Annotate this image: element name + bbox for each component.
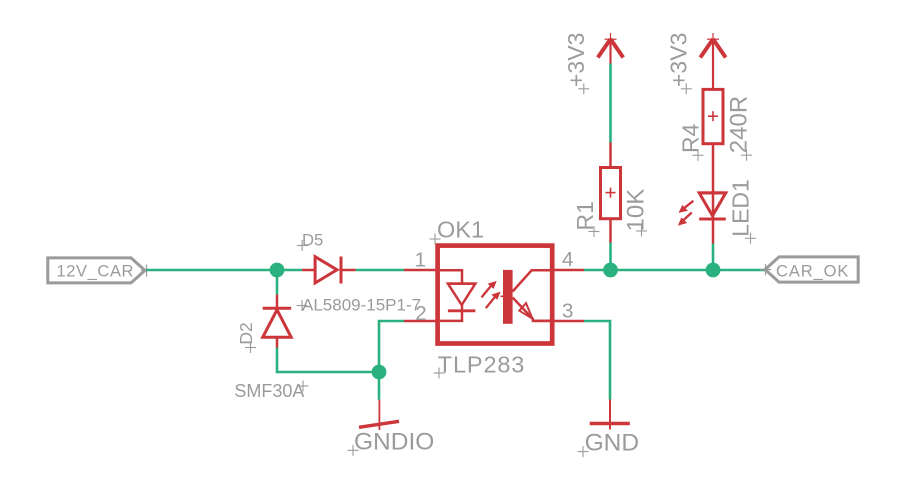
wire node B down to GNDIO [378, 372, 381, 400]
svg-text:3: 3 [562, 299, 573, 322]
ground GNDIO [359, 400, 399, 430]
wire R1 top to +3V3 [609, 64, 612, 143]
pin 2 stub [404, 320, 437, 323]
svg-text:SMF30A: SMF30A [234, 381, 304, 401]
phototransistor [503, 270, 513, 324]
interior led [440, 270, 462, 283]
pin 3 stub [552, 320, 584, 323]
supply +3V3 (left) [598, 33, 623, 64]
origin cross 10K [636, 226, 647, 237]
svg-text:1: 1 [415, 249, 426, 272]
origin cross R1 [589, 226, 600, 237]
wire OK1 pin3 to GND [584, 321, 610, 400]
wire D5 to OK1 pin1 [356, 269, 404, 272]
junction C [603, 263, 618, 278]
origin cross 240R [741, 150, 752, 161]
junction B [372, 365, 387, 380]
wire junction C up to R1 [609, 243, 612, 271]
origin cross AL5809 [297, 300, 308, 311]
wire junction A down to D2 [276, 270, 279, 294]
svg-text:TLP283: TLP283 [438, 351, 525, 377]
light arrows [482, 285, 493, 298]
svg-text:GND: GND [585, 430, 639, 457]
svg-text:2: 2 [415, 302, 426, 325]
wire node B up to OK1 pin2 [379, 321, 404, 372]
ground GND [590, 400, 630, 430]
origin cross SMF30A [298, 381, 309, 392]
svg-text:+3V3: +3V3 [666, 33, 692, 87]
origin cross +3V3 left [578, 83, 589, 94]
led arrows [683, 201, 693, 209]
origin cross +3V3 right [681, 83, 692, 94]
svg-text:R4: R4 [678, 123, 704, 153]
wire OK1 pin4 to CAR_OK [584, 269, 765, 272]
svg-text:LED1: LED1 [727, 179, 753, 237]
net flag CAR_OK [765, 257, 858, 282]
svg-text:4: 4 [562, 248, 573, 271]
origin cross GND [578, 446, 589, 457]
svg-text:GNDIO: GNDIO [354, 429, 434, 456]
opto-coupler OK1 TLP283 [438, 246, 553, 344]
svg-text:D5: D5 [302, 230, 323, 249]
wire junction D up to LED1 [712, 244, 715, 271]
pin 1 stub [404, 269, 437, 272]
resistor R1 [601, 143, 621, 243]
origin cross OK1 [430, 234, 441, 245]
diode D5 [302, 257, 356, 284]
node cross at CAR_OK tip [760, 264, 771, 276]
origin cross R4 [693, 150, 704, 161]
resistor R4 [703, 89, 723, 192]
origin cross TLP283 [434, 368, 445, 379]
LED LED1 [678, 193, 726, 244]
svg-text:CAR_OK: CAR_OK [776, 263, 849, 281]
svg-text:D2: D2 [236, 322, 256, 344]
origin cross GNDIO [348, 445, 359, 456]
node cross at 12V_CAR tip [141, 265, 152, 277]
diode D2 (TVS, cathode up) [263, 294, 292, 347]
svg-text:+3V3: +3V3 [563, 33, 589, 87]
svg-text:AL5809-15P1-7: AL5809-15P1-7 [302, 295, 421, 314]
pin 4 stub [552, 269, 584, 272]
junction D [706, 263, 721, 278]
svg-text:240R: 240R [726, 96, 753, 153]
svg-text:OK1: OK1 [437, 217, 484, 243]
junction A [270, 263, 285, 278]
wire 12V_CAR to D5 [146, 269, 302, 272]
net flag 12V_CAR [48, 258, 145, 283]
svg-text:10K: 10K [622, 189, 649, 232]
origin cross LED1 [745, 233, 756, 244]
supply +3V3 (right) [700, 33, 725, 89]
origin cross D2 [245, 342, 256, 353]
svg-text:12V_CAR: 12V_CAR [57, 263, 135, 281]
origin cross D5 [297, 240, 308, 251]
wire D2 bottom to node B [277, 348, 379, 373]
